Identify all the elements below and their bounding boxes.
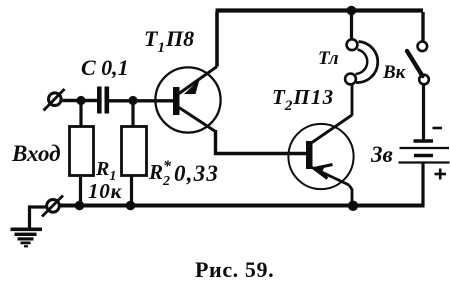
node dot T2 emitter-rail (348, 201, 358, 211)
node dot top rail (347, 6, 357, 16)
svg-text:C 0,1: C 0,1 (81, 55, 129, 80)
input terminal upper (44, 89, 65, 111)
svg-text:Вк: Вк (382, 62, 407, 83)
wire rail to headphone riser (350, 12, 353, 40)
wire bottom rail (59, 204, 425, 208)
wire headphone to T2 collector riser (351, 85, 354, 116)
wire junction A down to R1 (79, 101, 82, 128)
battery GB1 3v (399, 141, 450, 163)
node dot R1-rail (75, 201, 85, 211)
wire battery to bottom rail (421, 164, 424, 207)
wire top rail (216, 8, 424, 12)
capacitor C1 plates (99, 87, 107, 114)
transistor Q1 (T1 P8) (155, 67, 220, 133)
wire capacitor to T1 base (109, 99, 174, 102)
node junction B (128, 96, 137, 105)
wire input terminal to capacitor (61, 99, 98, 102)
node junction A (76, 96, 85, 105)
wire R2 bottom lead (130, 176, 133, 206)
svg-text:Вход: Вход (11, 141, 61, 166)
svg-text:10к: 10к (88, 179, 123, 203)
battery minus sign (433, 127, 443, 130)
wire R1 bottom lead (79, 176, 82, 206)
headphone Tl (345, 39, 378, 84)
svg-text:Тл: Тл (318, 48, 339, 69)
wire T1 emitter riser (215, 12, 219, 67)
svg-text:Рис. 59.: Рис. 59. (195, 257, 274, 282)
switch Vk (407, 12, 429, 84)
wire switch to battery (422, 84, 425, 140)
svg-text:3в: 3в (370, 142, 393, 167)
resistor R1 (70, 127, 94, 176)
resistor R2 (122, 127, 147, 176)
wire T1 collector elbow to T2 base (216, 130, 307, 154)
ground (11, 228, 43, 248)
node dot R2-rail (126, 201, 136, 211)
wire lower terminal to ground elbow (30, 207, 48, 228)
wire junction B down to R2 (131, 101, 134, 128)
input terminal lower (42, 196, 63, 217)
battery plus sign (435, 169, 447, 180)
transistor Q2 (T2 P13) (288, 115, 353, 204)
